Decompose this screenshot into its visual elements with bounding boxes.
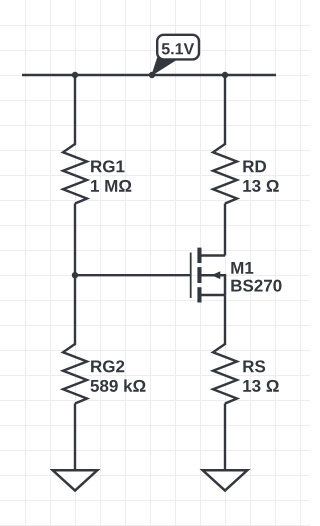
transistor M1 body arrow — [211, 271, 220, 279]
value 589 kΩ — [91, 379, 146, 391]
node rail-RG1 junction — [72, 72, 78, 78]
resistor RD — [213, 144, 237, 204]
wire RG2 to ground — [74, 404, 76, 471]
ground right — [203, 470, 248, 490]
wire gate node to RG2 — [74, 276, 76, 346]
transistor M1 drain lead — [200, 254, 225, 257]
transistor M1 channel bar (drain) — [197, 248, 201, 263]
transistor M1 channel bar (body) — [197, 267, 201, 283]
wire top rail 5.1V — [22, 74, 276, 76]
wire RD to drain — [224, 204, 226, 256]
value BS270 — [231, 280, 281, 292]
node rail-RD junction — [222, 72, 228, 78]
wire RG1 to gate node — [74, 204, 76, 276]
wire M1 source to RS — [224, 295, 226, 345]
label RS — [243, 360, 265, 372]
label RD — [243, 161, 266, 173]
wire gate node to M1 gate — [75, 274, 191, 276]
ground left — [53, 470, 98, 490]
node gate junction — [72, 272, 78, 278]
transistor M1 source lead — [200, 294, 225, 297]
net label 5.1V text — [162, 43, 194, 54]
resistor RG1 — [63, 144, 87, 204]
wire rail to RG1 — [74, 75, 76, 145]
resistor RG2 — [63, 344, 87, 404]
transistor M1 gate plate — [190, 253, 192, 299]
resistor RS — [213, 344, 237, 404]
label M1 — [231, 262, 253, 274]
label RG1 — [91, 160, 124, 172]
value 13 Ω (RD) — [243, 180, 278, 192]
net label 5.1V bubble — [157, 35, 199, 60]
wire RS to ground — [224, 404, 226, 471]
value 13 Ω (RS) — [243, 380, 278, 392]
wire rail to RD — [224, 75, 226, 145]
net label 5.1V bubble tail — [152, 58, 177, 75]
node 5.1V tap — [149, 72, 155, 78]
transistor M1 body lead — [200, 275, 225, 295]
transistor M1 channel bar (source) — [197, 287, 201, 302]
value 1 MΩ — [91, 180, 131, 192]
label RG2 — [91, 360, 124, 372]
